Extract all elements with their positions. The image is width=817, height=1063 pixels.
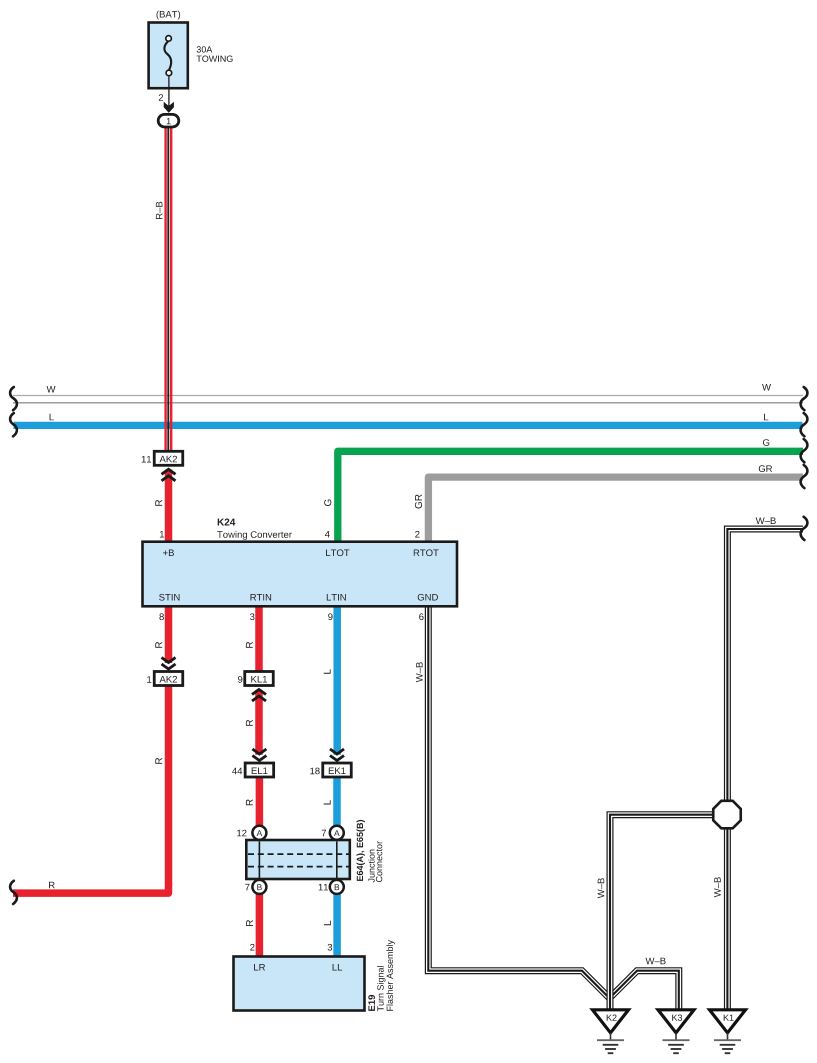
junction connector E64/E65 box bbox=[246, 840, 349, 879]
wire R from junction pin B to E19 pin 2 bbox=[256, 892, 264, 958]
component E19 Turn Signal Flasher Assembly bbox=[234, 957, 365, 1011]
wire W horizontal bus bbox=[13, 395, 803, 397]
junction octagon bbox=[713, 801, 741, 829]
fuse pin 2 label bbox=[159, 94, 163, 101]
arrow into node 1 bbox=[164, 102, 174, 113]
junction pin A left (12) bbox=[252, 826, 266, 840]
node 1 oval bbox=[158, 114, 179, 127]
pin 1 of K24 bbox=[160, 531, 164, 538]
label Flasher Assembly bbox=[386, 940, 394, 1011]
wire GR from right edge to pin RTOT bbox=[428, 477, 803, 543]
junction pin B left (7) bbox=[252, 880, 266, 894]
harness break L right bbox=[801, 413, 808, 436]
pin 6 of K24 bbox=[419, 613, 423, 620]
wire R from KL1 to EL1 bbox=[255, 690, 263, 755]
male arrow below 9 KL1 bbox=[252, 690, 266, 695]
label R between KL1 and EL1 bbox=[246, 720, 253, 726]
junction pin B right (11) bbox=[330, 880, 344, 894]
wire W-B from octagon junction to ground K2 bbox=[610, 815, 714, 1010]
pin 3 of E19 bbox=[328, 944, 333, 951]
wire R from pin STIN to connector AK2 bbox=[165, 605, 173, 663]
label GR on RTOT wire bbox=[415, 495, 422, 509]
pin 9 of K24 bbox=[328, 613, 332, 620]
label L above E19 pin 3 bbox=[324, 921, 331, 925]
label G on LTOT wire bbox=[324, 500, 331, 507]
wire R from EL1 to junction pin A bbox=[256, 775, 264, 829]
label L on LTIN wire bbox=[324, 669, 331, 673]
male arrow above 44 EL1 bbox=[252, 749, 266, 754]
label L below EK1 bbox=[324, 800, 331, 804]
wire W-B branch to ground K3 bbox=[611, 971, 679, 1010]
connector 1 AK2 bbox=[154, 672, 183, 686]
label R above E19 pin 2 bbox=[246, 920, 253, 926]
wire L from junction pin B to E19 pin 3 bbox=[333, 892, 341, 958]
harness break R bottom left bbox=[10, 881, 17, 904]
ground K1 bbox=[710, 1010, 746, 1033]
connector 18 EK1 bbox=[323, 763, 352, 777]
fuse 30A TOWING (BAT) bbox=[149, 11, 233, 89]
male arrow above 1 AK2 bbox=[162, 658, 176, 663]
label G right bbox=[763, 439, 769, 446]
label R below EL1 bbox=[246, 799, 253, 805]
harness break W right bbox=[801, 387, 808, 410]
male arrow above 18 EK1 bbox=[330, 749, 344, 754]
label Turn Signal bbox=[377, 966, 385, 1011]
harness break W-B right bbox=[801, 517, 808, 540]
wire R from AK2 to left edge bbox=[13, 685, 169, 894]
label W right bbox=[762, 384, 771, 391]
label W-B top right bbox=[756, 518, 776, 525]
wire L from pin LTIN to EK1 bbox=[333, 605, 341, 755]
label Junction bbox=[368, 850, 375, 883]
pin 8 of K24 bbox=[159, 613, 164, 620]
label W-B on K3 wire bbox=[646, 958, 666, 965]
harness break GR right bbox=[801, 465, 808, 488]
wire L from EK1 to junction pin A bbox=[333, 775, 341, 829]
connector 9 KL1 bbox=[245, 672, 274, 686]
junction pin A right (7) bbox=[330, 826, 344, 840]
wire R from pin RTIN to KL1 bbox=[255, 605, 263, 673]
label R on STIN wire bbox=[155, 642, 162, 648]
label Connector bbox=[376, 841, 382, 882]
label L left bbox=[50, 414, 54, 421]
label E64(A), E65(B) bbox=[357, 820, 365, 881]
connector 44 EL1 bbox=[245, 763, 274, 777]
harness break G right bbox=[801, 439, 808, 462]
label W left bbox=[47, 386, 56, 393]
wire W-B from right edge through octagon junction to ground K1 bbox=[727, 529, 803, 1010]
wire R from AK2 to pin +B bbox=[165, 470, 173, 543]
label R on RTIN wire bbox=[246, 642, 253, 648]
label R bottom left wire bbox=[49, 882, 55, 889]
label W-B on K1 wire bbox=[714, 877, 721, 897]
ground K2 bbox=[593, 1010, 629, 1033]
wire R-B from fuse node to connector AK2 bbox=[164, 126, 166, 452]
pin 4 of K24 bbox=[325, 531, 330, 538]
label L right bbox=[764, 414, 768, 421]
harness break L left bbox=[10, 413, 17, 436]
ground K3 bbox=[658, 1010, 694, 1033]
wire from fuse pin 2 to node 1 bbox=[168, 76, 170, 108]
label E19 bbox=[368, 995, 375, 1011]
wire L horizontal bus bbox=[14, 422, 803, 429]
wire G from right edge to pin LTOT bbox=[338, 451, 803, 543]
label GR right bbox=[759, 465, 772, 472]
label R on +B wire bbox=[155, 500, 162, 506]
pin 2 of K24 bbox=[415, 531, 419, 538]
label R below AK2 bbox=[155, 758, 162, 764]
label W-B on K2 wire bbox=[598, 878, 605, 898]
pin 2 of E19 bbox=[250, 944, 254, 951]
label W-B on GND wire bbox=[416, 662, 423, 682]
connector 11 AK2 bbox=[154, 451, 183, 465]
component K24 Towing Converter bbox=[143, 519, 458, 607]
harness break W left bbox=[10, 387, 17, 410]
label R-B bbox=[156, 202, 163, 219]
wire W-B from pin GND to ground K2 bbox=[428, 605, 609, 998]
male arrow below 11 AK2 bbox=[162, 469, 176, 474]
pin 3 of K24 bbox=[250, 613, 255, 620]
